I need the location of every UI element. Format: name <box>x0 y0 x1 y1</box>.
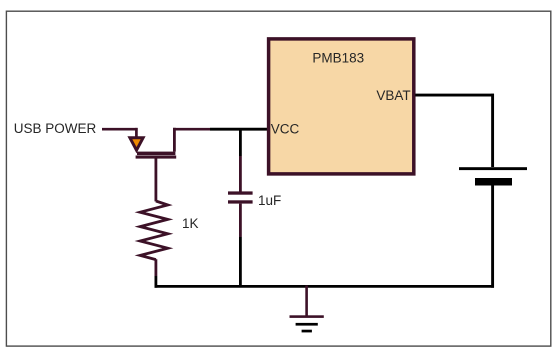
wire <box>239 129 242 156</box>
wire <box>102 128 138 131</box>
IC U1 PMB183 <box>269 39 414 174</box>
wire <box>491 186 494 288</box>
wire <box>154 259 157 276</box>
wire <box>154 276 157 288</box>
wire <box>154 158 157 201</box>
battery BT1 <box>459 167 527 185</box>
svg-text:USB POWER: USB POWER <box>14 121 97 136</box>
wire <box>239 204 242 237</box>
wire <box>135 128 138 138</box>
ground <box>290 286 324 333</box>
wire <box>210 128 270 131</box>
svg-text:VBAT: VBAT <box>376 88 410 103</box>
capacitor C1 <box>228 191 253 203</box>
wire <box>155 285 495 288</box>
resistor R1 <box>140 201 168 260</box>
wire <box>173 128 210 131</box>
wire <box>415 94 494 97</box>
svg-text:PMB183: PMB183 <box>312 51 364 66</box>
svg-text:1K: 1K <box>182 216 199 231</box>
svg-text:VCC: VCC <box>271 122 300 137</box>
wire <box>239 156 242 192</box>
wire <box>239 237 242 288</box>
svg-text:1uF: 1uF <box>258 193 281 208</box>
wire <box>491 94 494 167</box>
transistor Q1 <box>130 128 176 159</box>
